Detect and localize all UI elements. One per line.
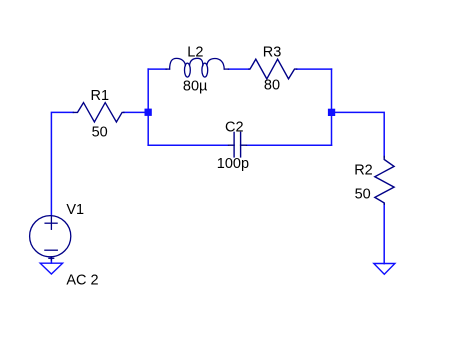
svg-text:C2: C2 bbox=[225, 120, 244, 136]
ground (V1) bbox=[40, 263, 62, 274]
node B (junction square) bbox=[328, 109, 335, 116]
resistor R1 bbox=[73, 103, 124, 122]
wire node B to R2 branch bbox=[332, 112, 385, 157]
svg-text:80µ: 80µ bbox=[183, 79, 208, 95]
wire loop left vertical bbox=[147, 69, 149, 145]
wire left branch: V1 top to R1 bbox=[51, 112, 73, 215]
wire top left segment to L2 bbox=[148, 68, 166, 70]
ground (R2) bbox=[374, 264, 395, 275]
wire V1 bottom stub bbox=[50, 257, 52, 263]
resistor R2 bbox=[375, 157, 394, 205]
voltage source V1 bbox=[30, 216, 71, 260]
wire R2 bottom to ground bbox=[383, 204, 385, 264]
wire R1 right to node A bbox=[124, 111, 148, 113]
svg-text:L2: L2 bbox=[187, 45, 203, 61]
capacitor C2 bbox=[229, 132, 247, 157]
wire loop right vertical bbox=[331, 69, 333, 145]
svg-text:R3: R3 bbox=[263, 44, 282, 60]
resistor R3 bbox=[249, 59, 297, 79]
node A (junction square) bbox=[145, 109, 152, 116]
svg-text:50: 50 bbox=[355, 187, 371, 203]
svg-text:80: 80 bbox=[264, 78, 280, 94]
svg-text:R1: R1 bbox=[91, 88, 110, 104]
wire bottom left segment to C2 bbox=[148, 144, 228, 146]
svg-text:V1: V1 bbox=[66, 202, 84, 218]
wire C2 to bottom right corner bbox=[247, 144, 332, 146]
svg-text:R2: R2 bbox=[354, 162, 373, 178]
inductor L2 bbox=[166, 58, 229, 77]
wire R3 to loop right vertical bbox=[297, 68, 332, 70]
svg-text:AC 2: AC 2 bbox=[66, 273, 98, 289]
wire between L2 and R3 bbox=[229, 68, 250, 70]
svg-text:50: 50 bbox=[92, 124, 108, 140]
svg-text:100p: 100p bbox=[217, 156, 249, 172]
